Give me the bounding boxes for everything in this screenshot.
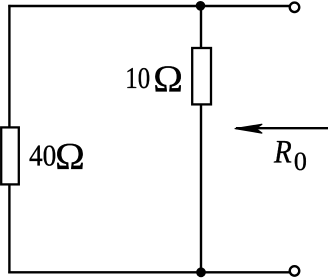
svg-text:Ω: Ω bbox=[55, 136, 85, 178]
svg-text:40: 40 bbox=[29, 139, 56, 173]
wire left vertical lower bbox=[8, 185, 10, 274]
label R0 net name bbox=[273, 133, 307, 176]
svg-text:10: 10 bbox=[125, 61, 150, 95]
wire bottom bbox=[8, 271, 290, 273]
label 40 ohm value bbox=[29, 136, 85, 178]
arrow line for R0 looking-in resistance bbox=[236, 127, 328, 129]
terminal bottom-right (open circle) bbox=[290, 266, 300, 276]
svg-text:0: 0 bbox=[294, 147, 307, 176]
wire top (node between terminals) bbox=[8, 5, 290, 7]
svg-text:R: R bbox=[273, 133, 292, 170]
arrowhead pointing left bbox=[235, 124, 263, 133]
junction dot bottom node bbox=[196, 267, 206, 277]
terminal top-right (open circle) bbox=[290, 3, 300, 13]
svg-text:Ω: Ω bbox=[153, 58, 183, 100]
label 10 ohm value bbox=[125, 58, 183, 100]
junction dot top node bbox=[196, 1, 206, 11]
wire middle branch upper bbox=[200, 6, 202, 48]
wire middle branch lower bbox=[200, 104, 202, 272]
wire left vertical upper bbox=[8, 5, 10, 128]
resistor 10ohm body bbox=[192, 48, 211, 104]
resistor 40ohm body bbox=[1, 127, 19, 184]
